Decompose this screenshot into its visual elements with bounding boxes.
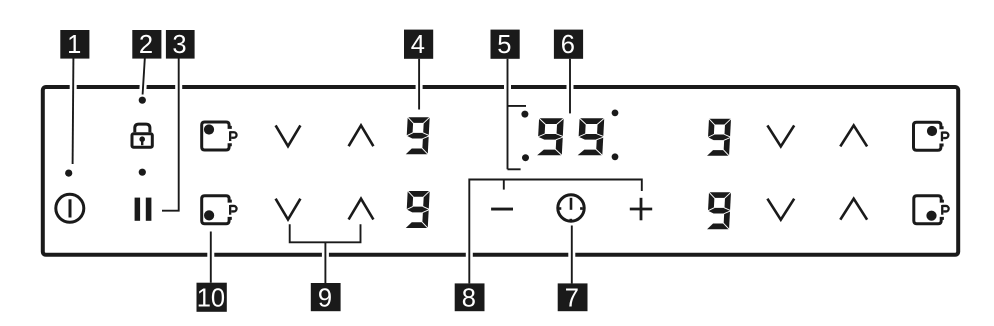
leader line 7	[568, 226, 575, 284]
digit 9 top-right	[707, 118, 732, 156]
leader line 3	[162, 59, 179, 211]
chevron down top-left	[276, 125, 301, 146]
digit 9 bottom-left	[405, 191, 430, 229]
plus button	[630, 198, 652, 221]
svg-text:4: 4	[411, 31, 425, 59]
indicator dot above power	[65, 170, 72, 177]
svg-text:3: 3	[172, 31, 186, 59]
callout box 6	[554, 30, 583, 59]
callout box 5	[491, 30, 520, 59]
svg-text:10: 10	[197, 284, 225, 312]
callout box 7	[558, 283, 588, 312]
leader line 9 bracket	[290, 224, 361, 283]
callout box 9	[311, 283, 341, 312]
pan/booster icon bottom-right	[914, 196, 949, 224]
timer clock icon	[558, 195, 584, 222]
callout box 2	[132, 30, 161, 59]
callout box 10	[197, 283, 227, 313]
chevron up bottom-right	[840, 199, 867, 220]
pan/booster icon top-right	[914, 122, 949, 150]
pan/booster icon bottom-left	[202, 196, 237, 224]
chevron up bottom-left	[349, 199, 374, 220]
digit 9 bottom-right	[707, 192, 732, 230]
digit 9 top-left	[405, 117, 430, 155]
pause II button	[135, 198, 152, 221]
chevron down bottom-right	[767, 199, 794, 220]
svg-text:1: 1	[67, 31, 81, 59]
chevron down top-right	[767, 125, 794, 146]
leader line 6	[567, 59, 574, 114]
leader line 10	[207, 232, 214, 283]
leader line 5 bracket	[508, 59, 527, 170]
leader line 2	[143, 59, 145, 95]
callout box 8	[455, 283, 485, 312]
timer colon dots right	[612, 110, 619, 117]
callout box 3	[166, 30, 195, 59]
svg-text:2: 2	[139, 31, 153, 59]
svg-text:9: 9	[318, 284, 332, 312]
callout box 4	[404, 30, 433, 59]
indicator dot below lock	[139, 169, 146, 176]
callout box 1	[60, 30, 89, 59]
svg-text:5: 5	[497, 31, 511, 59]
chevron down bottom-left	[276, 199, 301, 220]
chevron up top-right	[840, 125, 867, 146]
control panel outline	[43, 87, 958, 255]
timer digits 99	[537, 118, 565, 156]
svg-text:6: 6	[561, 31, 575, 59]
leader line 8 bracket	[469, 180, 642, 284]
svg-text:8: 8	[462, 284, 476, 312]
leader line 1	[69, 59, 77, 165]
indicator dot above lock	[139, 97, 146, 104]
timer colon dots left	[521, 111, 528, 118]
key lock icon	[132, 124, 152, 147]
svg-text:7: 7	[565, 284, 579, 312]
pan/booster icon top-left	[202, 122, 237, 150]
power on/off button	[56, 194, 84, 222]
chevron up top-left	[349, 125, 374, 146]
minus button	[491, 208, 513, 211]
leader line 4	[416, 59, 423, 110]
